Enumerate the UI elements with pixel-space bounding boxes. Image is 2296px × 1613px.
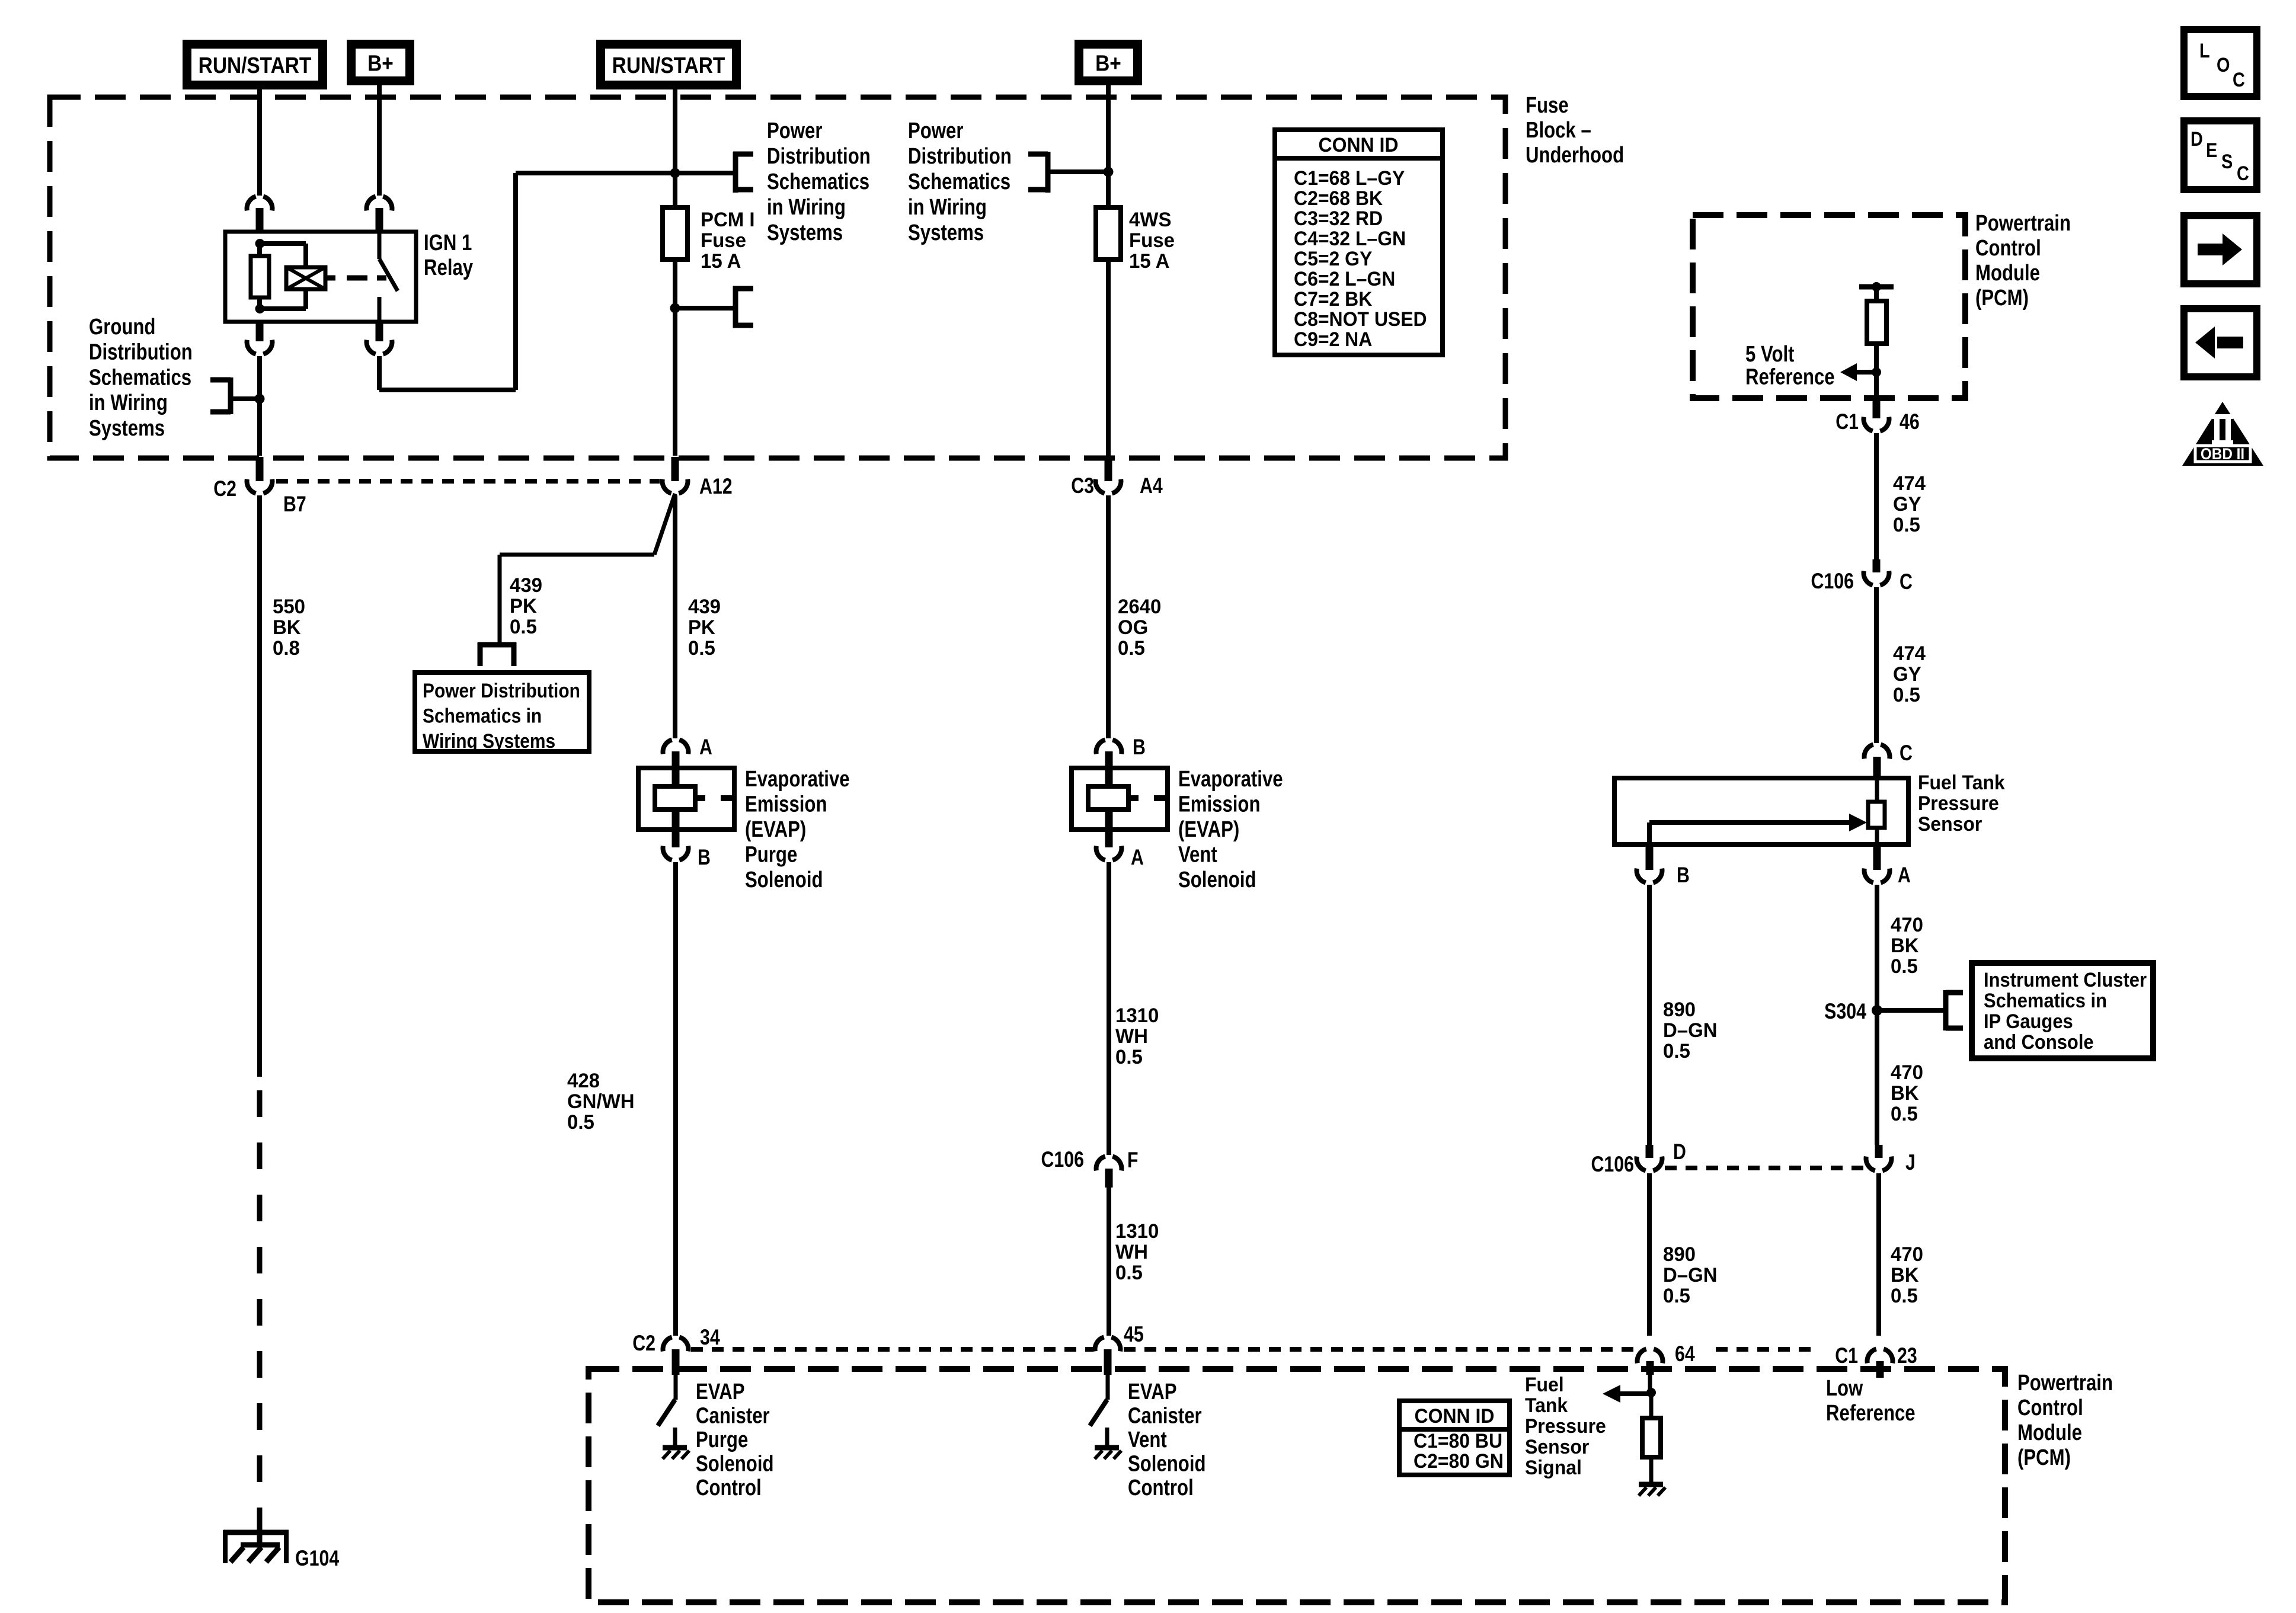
svg-text:Evaporative: Evaporative <box>1178 767 1283 792</box>
svg-text:0.5: 0.5 <box>1115 1262 1143 1285</box>
svg-text:Signal: Signal <box>1525 1456 1582 1478</box>
svg-text:Schematics: Schematics <box>89 366 191 391</box>
svg-text:Vent: Vent <box>1178 843 1217 868</box>
svg-text:C106: C106 <box>1811 569 1854 594</box>
svg-text:GY: GY <box>1893 494 1921 516</box>
svg-text:550: 550 <box>273 596 305 619</box>
svg-text:in Wiring: in Wiring <box>767 195 846 220</box>
svg-text:in Wiring: in Wiring <box>89 391 168 415</box>
svg-text:Ground: Ground <box>89 315 155 340</box>
svg-text:15 A: 15 A <box>701 251 741 273</box>
svg-text:Systems: Systems <box>908 220 984 245</box>
svg-text:Fuel Tank: Fuel Tank <box>1918 771 2005 793</box>
svg-text:B: B <box>1677 863 1690 888</box>
svg-text:D: D <box>1673 1140 1686 1164</box>
svg-text:(EVAP): (EVAP) <box>1178 817 1239 842</box>
svg-text:S304: S304 <box>1824 999 1866 1024</box>
svg-text:RUN/START: RUN/START <box>199 53 312 78</box>
svg-text:IP Gauges: IP Gauges <box>1984 1010 2073 1033</box>
svg-text:Solenoid: Solenoid <box>1178 868 1256 892</box>
svg-text:D–GN: D–GN <box>1663 1020 1718 1042</box>
svg-text:C8=NOT USED: C8=NOT USED <box>1294 308 1427 330</box>
svg-text:Solenoid: Solenoid <box>1128 1452 1206 1477</box>
svg-text:D–GN: D–GN <box>1663 1265 1718 1287</box>
svg-text:2640: 2640 <box>1118 596 1161 619</box>
svg-text:Instrument Cluster: Instrument Cluster <box>1984 969 2147 991</box>
svg-text:Pressure: Pressure <box>1525 1414 1606 1437</box>
svg-text:G104: G104 <box>295 1546 339 1571</box>
svg-text:890: 890 <box>1663 999 1696 1022</box>
svg-text:(PCM): (PCM) <box>2017 1445 2071 1470</box>
svg-text:C7=2 BK: C7=2 BK <box>1294 287 1372 310</box>
svg-text:4WS: 4WS <box>1129 209 1171 232</box>
svg-text:Power: Power <box>767 119 822 143</box>
svg-text:Control: Control <box>2017 1396 2083 1420</box>
svg-text:BK: BK <box>273 617 301 639</box>
svg-text:1310: 1310 <box>1115 1005 1159 1028</box>
svg-text:439: 439 <box>688 596 721 619</box>
svg-text:C: C <box>1900 741 1913 766</box>
svg-text:Purge: Purge <box>745 843 797 868</box>
svg-text:0.5: 0.5 <box>1893 514 1920 537</box>
svg-text:Control: Control <box>1128 1476 1194 1500</box>
svg-text:BK: BK <box>1891 1083 1919 1105</box>
svg-text:470: 470 <box>1891 1062 1923 1084</box>
svg-text:Solenoid: Solenoid <box>745 868 823 892</box>
svg-text:C2: C2 <box>632 1331 655 1356</box>
svg-text:C106: C106 <box>1591 1152 1634 1177</box>
svg-text:Distribution: Distribution <box>89 340 193 365</box>
svg-text:OBD II: OBD II <box>2201 446 2244 463</box>
svg-text:Emission: Emission <box>745 792 827 817</box>
svg-text:Fuse: Fuse <box>701 230 746 252</box>
svg-text:C4=32 L–GN: C4=32 L–GN <box>1294 227 1406 249</box>
svg-text:Schematics: Schematics <box>767 169 869 194</box>
svg-text:Schematics in: Schematics in <box>1984 990 2107 1012</box>
svg-text:Canister: Canister <box>1128 1404 1202 1429</box>
svg-text:B: B <box>1133 735 1146 760</box>
svg-text:Sensor: Sensor <box>1525 1435 1589 1458</box>
svg-text:Power: Power <box>908 119 963 143</box>
svg-text:0.8: 0.8 <box>273 638 300 660</box>
svg-text:O: O <box>2217 53 2230 76</box>
svg-text:0.5: 0.5 <box>567 1112 594 1134</box>
svg-text:Power Distribution: Power Distribution <box>423 679 580 702</box>
svg-text:B+: B+ <box>1095 51 1121 76</box>
svg-text:Underhood: Underhood <box>1526 143 1624 168</box>
svg-text:Block –: Block – <box>1526 118 1591 143</box>
svg-text:474: 474 <box>1893 643 1926 665</box>
svg-text:Systems: Systems <box>89 416 165 441</box>
svg-text:A: A <box>699 735 712 760</box>
svg-text:C3=32 RD: C3=32 RD <box>1294 207 1383 229</box>
svg-text:0.5: 0.5 <box>1893 684 1920 707</box>
svg-text:Vent: Vent <box>1128 1428 1167 1452</box>
svg-text:Purge: Purge <box>696 1428 748 1452</box>
svg-text:5 Volt: 5 Volt <box>1745 342 1795 367</box>
svg-text:S: S <box>2221 150 2233 173</box>
svg-text:0.5: 0.5 <box>1118 638 1145 660</box>
svg-text:1310: 1310 <box>1115 1221 1159 1243</box>
svg-text:L: L <box>2199 39 2210 62</box>
svg-text:WH: WH <box>1115 1241 1148 1264</box>
svg-text:0.5: 0.5 <box>1891 1103 1918 1126</box>
svg-text:C9=2 NA: C9=2 NA <box>1294 328 1372 350</box>
svg-text:C6=2 L–GN: C6=2 L–GN <box>1294 267 1395 290</box>
svg-text:CONN ID: CONN ID <box>1319 133 1399 156</box>
svg-text:Sensor: Sensor <box>1918 812 1982 835</box>
svg-text:Systems: Systems <box>767 220 843 245</box>
svg-text:A12: A12 <box>699 474 733 499</box>
svg-text:Fuse: Fuse <box>1129 230 1175 252</box>
svg-text:OG: OG <box>1118 617 1148 639</box>
svg-text:B: B <box>698 845 711 870</box>
svg-text:CONN ID: CONN ID <box>1415 1404 1495 1427</box>
svg-text:BK: BK <box>1891 935 1919 958</box>
svg-text:C106: C106 <box>1041 1147 1084 1172</box>
svg-text:C3: C3 <box>1071 473 1094 498</box>
svg-text:B+: B+ <box>367 51 394 76</box>
svg-text:Control: Control <box>1975 236 2041 261</box>
svg-text:C2=80 GN: C2=80 GN <box>1414 1449 1504 1472</box>
svg-text:Powertrain: Powertrain <box>2017 1371 2113 1396</box>
svg-text:439: 439 <box>510 575 542 597</box>
svg-text:Tank: Tank <box>1525 1394 1568 1416</box>
svg-text:IGN 1: IGN 1 <box>424 231 472 255</box>
svg-text:PK: PK <box>688 617 715 639</box>
svg-text:Distribution: Distribution <box>908 144 1012 169</box>
svg-text:PCM I: PCM I <box>701 209 755 232</box>
svg-text:Solenoid: Solenoid <box>696 1452 774 1477</box>
svg-text:C2: C2 <box>213 476 236 501</box>
svg-text:0.5: 0.5 <box>688 638 715 660</box>
svg-text:Distribution: Distribution <box>767 144 871 169</box>
svg-text:428: 428 <box>567 1070 600 1093</box>
svg-text:Powertrain: Powertrain <box>1975 211 2071 236</box>
svg-text:0.5: 0.5 <box>1891 1285 1918 1308</box>
svg-text:Evaporative: Evaporative <box>745 767 850 792</box>
svg-text:GN/WH: GN/WH <box>567 1091 635 1113</box>
svg-text:0.5: 0.5 <box>1115 1046 1143 1069</box>
svg-text:Emission: Emission <box>1178 792 1260 817</box>
svg-text:Fuel: Fuel <box>1525 1373 1564 1396</box>
svg-text:C5=2 GY: C5=2 GY <box>1294 247 1372 270</box>
svg-text:Canister: Canister <box>696 1404 770 1429</box>
svg-text:C: C <box>1900 569 1913 594</box>
svg-text:Pressure: Pressure <box>1918 792 1999 814</box>
svg-text:E: E <box>2206 139 2217 162</box>
svg-text:0.5: 0.5 <box>510 616 537 639</box>
svg-text:F: F <box>1127 1148 1139 1173</box>
svg-text:470: 470 <box>1891 1244 1923 1266</box>
svg-text:0.5: 0.5 <box>1663 1041 1690 1063</box>
svg-text:890: 890 <box>1663 1244 1696 1266</box>
svg-text:J: J <box>1905 1150 1916 1175</box>
svg-text:470: 470 <box>1891 914 1923 937</box>
svg-text:C1: C1 <box>1835 409 1859 434</box>
svg-text:46: 46 <box>1900 409 1920 434</box>
svg-text:Module: Module <box>1975 261 2040 286</box>
svg-text:EVAP: EVAP <box>1128 1380 1177 1404</box>
svg-text:45: 45 <box>1124 1322 1144 1347</box>
svg-text:C1=80 BU: C1=80 BU <box>1414 1429 1502 1452</box>
svg-text:C: C <box>2237 162 2249 185</box>
svg-text:474: 474 <box>1893 473 1926 495</box>
svg-text:in Wiring: in Wiring <box>908 195 987 220</box>
svg-text:Wiring Systems: Wiring Systems <box>423 729 555 752</box>
svg-text:EVAP: EVAP <box>696 1380 745 1404</box>
svg-text:23: 23 <box>1897 1343 1917 1368</box>
svg-text:B7: B7 <box>283 492 306 517</box>
svg-text:D: D <box>2191 127 2203 151</box>
svg-text:C1: C1 <box>1835 1343 1858 1368</box>
svg-text:GY: GY <box>1893 664 1921 686</box>
svg-text:RUN/START: RUN/START <box>612 53 725 78</box>
svg-text:and Console: and Console <box>1984 1031 2094 1054</box>
svg-text:PK: PK <box>510 596 537 618</box>
svg-text:34: 34 <box>700 1325 720 1350</box>
svg-text:Module: Module <box>2017 1420 2082 1445</box>
svg-text:A: A <box>1898 863 1911 888</box>
svg-text:Low: Low <box>1826 1376 1863 1401</box>
svg-text:A: A <box>1131 845 1144 870</box>
svg-text:(PCM): (PCM) <box>1975 286 2029 311</box>
svg-text:A4: A4 <box>1140 473 1163 498</box>
svg-text:Fuse: Fuse <box>1526 93 1569 118</box>
svg-text:(EVAP): (EVAP) <box>745 817 806 842</box>
svg-text:0.5: 0.5 <box>1891 956 1918 978</box>
svg-text:C2=68 BK: C2=68 BK <box>1294 187 1383 209</box>
svg-text:Schematics in: Schematics in <box>423 705 542 727</box>
svg-text:Schematics: Schematics <box>908 169 1011 194</box>
svg-text:BK: BK <box>1891 1265 1919 1287</box>
svg-text:Reference: Reference <box>1745 365 1835 390</box>
svg-text:Reference: Reference <box>1826 1401 1916 1426</box>
svg-text:15 A: 15 A <box>1129 251 1169 273</box>
svg-text:Control: Control <box>696 1476 762 1500</box>
svg-text:0.5: 0.5 <box>1663 1285 1690 1308</box>
svg-text:C: C <box>2233 68 2245 91</box>
svg-text:C1=68 L–GY: C1=68 L–GY <box>1294 167 1405 189</box>
svg-text:WH: WH <box>1115 1026 1148 1048</box>
svg-text:Relay: Relay <box>424 255 474 280</box>
svg-text:64: 64 <box>1675 1342 1695 1366</box>
